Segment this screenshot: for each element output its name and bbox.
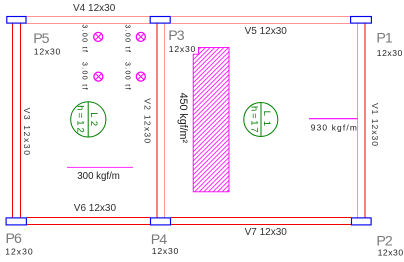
- svg-text:h=17: h=17: [248, 106, 259, 132]
- svg-text:V5 12x30: V5 12x30: [245, 26, 288, 37]
- svg-text:P5: P5: [33, 31, 49, 47]
- svg-text:12x30: 12x30: [34, 46, 61, 56]
- svg-text:450 kgf/m²: 450 kgf/m²: [177, 93, 189, 144]
- svg-text:P6: P6: [6, 231, 22, 247]
- svg-text:V2 12x30: V2 12x30: [143, 98, 153, 143]
- svg-text:P1: P1: [376, 31, 392, 47]
- svg-text:V7 12x30: V7 12x30: [245, 227, 288, 238]
- svg-text:V3 12x30: V3 12x30: [22, 108, 32, 156]
- svg-text:12x30: 12x30: [377, 48, 403, 58]
- svg-text:V6 12x30: V6 12x30: [74, 203, 117, 214]
- svg-text:V4 12x30: V4 12x30: [73, 3, 116, 14]
- svg-text:P3: P3: [168, 28, 184, 44]
- svg-text:12x30: 12x30: [378, 248, 404, 258]
- svg-text:930 kgf/m: 930 kgf/m: [311, 122, 357, 132]
- svg-text:12x30: 12x30: [5, 246, 33, 256]
- svg-text:12x30: 12x30: [169, 44, 196, 54]
- svg-text:V1 12x30: V1 12x30: [370, 103, 380, 146]
- svg-text:12x30: 12x30: [152, 246, 179, 256]
- svg-text:300 kgf/m: 300 kgf/m: [77, 171, 120, 182]
